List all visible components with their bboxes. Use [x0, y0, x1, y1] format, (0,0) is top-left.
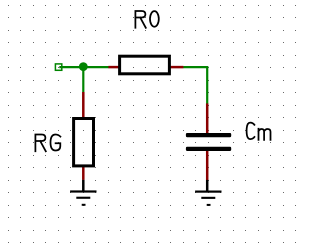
wire junction down to RG: [82, 67, 84, 92]
wire R0 right to corner to Cm: [183, 67, 207, 104]
resistor RG pin 1 (top lead): [82, 92, 85, 118]
resistor RG body: [74, 119, 94, 166]
capacitor Cm top plate: [186, 133, 231, 137]
capacitor Cm bottom plate: [186, 147, 231, 151]
resistor RG pin 2 (bottom lead): [82, 167, 85, 180]
label RG: [35, 135, 60, 152]
label R0: [135, 11, 158, 28]
label Cm: [247, 123, 271, 140]
capacitor Cm pin 1 (top lead): [206, 103, 209, 133]
junction node A: [79, 62, 88, 71]
node IN pin-end square: [55, 64, 61, 70]
resistor R0 pin 2 (right lead): [171, 66, 184, 69]
ground under Cm: [206, 180, 209, 191]
capacitor Cm pin 2 (bottom lead): [206, 151, 209, 180]
ground under RG: [82, 180, 85, 191]
resistor R0 body: [120, 56, 170, 74]
resistor R0 pin 1 (left lead): [108, 66, 118, 69]
wire IN to junction to R0: [59, 66, 108, 68]
